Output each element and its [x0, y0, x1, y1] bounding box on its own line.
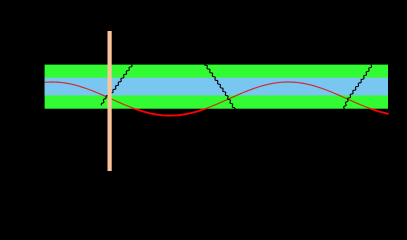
red sine wave (bright over black): [45, 82, 389, 116]
vertical peach line: [108, 31, 112, 171]
zigzag wavefront 1: [101, 63, 133, 105]
blue core stripe: [45, 78, 388, 96]
zigzag wavefront 3: [343, 64, 372, 110]
red sine wave (over band, blended): [45, 82, 389, 116]
zigzag wavefront 2: [204, 63, 235, 110]
green band (cladding): [45, 65, 388, 109]
